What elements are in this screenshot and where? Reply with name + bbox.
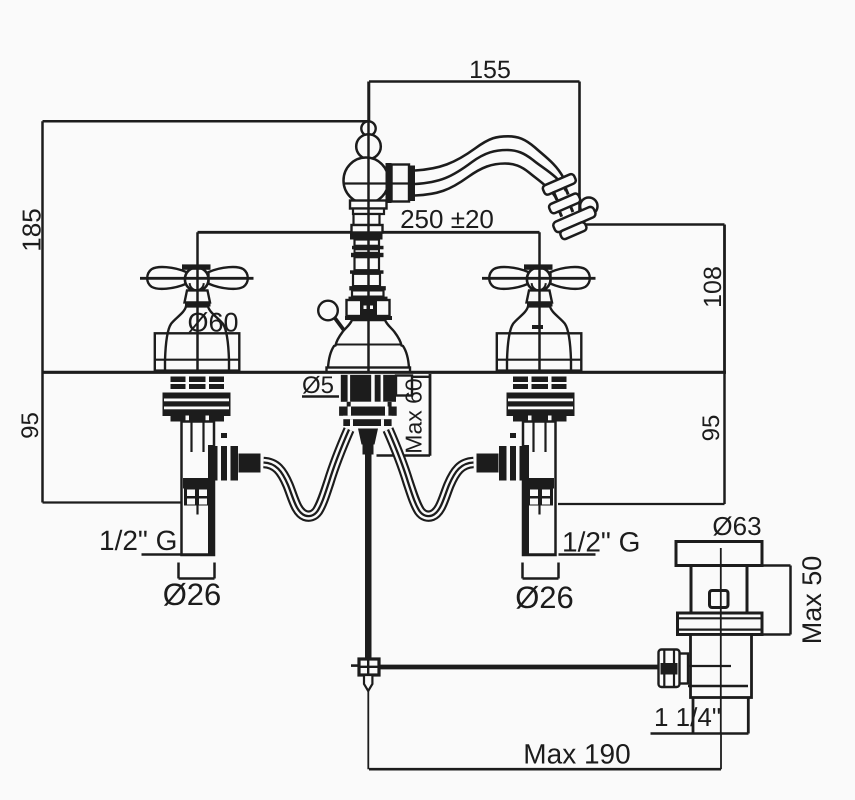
- mount washer plate right: [396, 376, 412, 396]
- drain pivot line: [688, 665, 731, 667]
- mount dark band 1 slit b: [385, 407, 388, 416]
- spout bulb body: [344, 158, 389, 204]
- dim Max60 top tick: [410, 376, 431, 378]
- dim 95 left vertical: [41, 372, 44, 503]
- column narrow 2: [355, 240, 380, 246]
- valve block: [347, 300, 390, 316]
- right below-deck valve (mirrored): [473, 377, 575, 556]
- pop-up lever rod: [335, 318, 347, 334]
- mount white band: [347, 402, 392, 407]
- mount dark band 1 slit a: [348, 407, 351, 416]
- leader 1-1/4 underline: [651, 732, 749, 735]
- drain tail right: [747, 698, 750, 734]
- dim 95 right horizontal: [558, 503, 725, 505]
- drain flange: [676, 542, 762, 566]
- drain nut line 2: [678, 628, 763, 630]
- svg-text:1/2" G: 1/2" G: [99, 525, 177, 556]
- drain nut line 1: [678, 617, 763, 619]
- column ring 2: [352, 225, 383, 233]
- valve block step: [345, 316, 392, 320]
- svg-text:108: 108: [699, 266, 727, 308]
- dim 250 line: [198, 231, 540, 234]
- aerator band 3: [552, 206, 597, 234]
- drain lower body: [691, 635, 752, 698]
- svg-text:185: 185: [17, 208, 47, 251]
- mount dark band 2: [343, 419, 391, 426]
- aerator band 2: [548, 192, 581, 214]
- dim O26 right bracket: [523, 563, 559, 579]
- svg-text:250 ±20: 250 ±20: [400, 204, 494, 234]
- drain overflow square: [710, 591, 729, 608]
- left hose outer: [264, 430, 350, 517]
- column dark band 4: [350, 270, 384, 274]
- svg-text:Ø26: Ø26: [515, 580, 574, 615]
- dim Max60 vertical: [429, 374, 432, 456]
- collar bar right: [409, 166, 415, 202]
- mount stud left dark: [341, 375, 372, 402]
- drain elbow knob dark middle: [661, 663, 678, 675]
- valve block dark center: [360, 300, 377, 316]
- mount dark band 2 slit b: [381, 419, 384, 426]
- mount dark band 1: [339, 407, 397, 416]
- svg-text:1 1/4": 1 1/4": [654, 702, 721, 732]
- drain elbow knob: [659, 650, 680, 688]
- svg-text:Ø5: Ø5: [302, 372, 334, 399]
- left hose center line: [264, 430, 350, 517]
- spout bell step line: [336, 344, 401, 346]
- deck line: [43, 371, 727, 374]
- column narrow 1: [353, 209, 384, 215]
- mount white band mark left: [347, 402, 351, 407]
- aerator bulge: [580, 198, 597, 215]
- mount stud right dark: [375, 375, 396, 402]
- collar barrel: [392, 165, 410, 202]
- drain elbow knob line a: [663, 650, 665, 687]
- column dark band 2: [352, 246, 384, 250]
- mount stud left slit: [348, 375, 351, 402]
- drain centerline: [720, 548, 722, 734]
- right hose center line: [388, 430, 474, 517]
- column flare: [353, 274, 380, 286]
- drain joint line 1: [688, 685, 748, 687]
- dim 185 vertical: [41, 121, 44, 372]
- drain nut: [678, 613, 763, 635]
- right hose outer: [388, 430, 474, 517]
- dim 155 line: [369, 80, 580, 83]
- drain elbow washer: [679, 654, 688, 684]
- svg-text:Ø26: Ø26: [163, 577, 222, 612]
- svg-text:155: 155: [469, 56, 511, 84]
- pop-up cross fitting: [359, 659, 379, 675]
- cross fitting left tick: [351, 664, 359, 667]
- horizontal linkage rod: [379, 665, 661, 670]
- dim 108 vertical: [723, 225, 726, 373]
- dim Max50 vertical: [789, 566, 792, 635]
- pop-up lever circle: [318, 301, 338, 321]
- dim Max60 bottom tick: [377, 454, 431, 457]
- column dark band 5: [349, 286, 386, 290]
- collar bar left: [386, 163, 392, 203]
- dim 155 right extension: [578, 82, 581, 225]
- aerator gap stripes 2: [559, 206, 573, 217]
- svg-text:Max 60: Max 60: [401, 378, 427, 453]
- right handle tiny bell mark: [532, 325, 543, 329]
- dim Max50 bottom tick: [762, 633, 791, 636]
- svg-text:95: 95: [17, 412, 44, 439]
- dim 95 right vertical: [723, 372, 726, 504]
- mount white band 2: [343, 416, 392, 419]
- leader half-G left underline: [142, 553, 183, 556]
- leader half-G right underline: [559, 553, 596, 556]
- svg-text:1/2" G: 1/2" G: [562, 527, 640, 558]
- dim Max190 right extension: [720, 734, 722, 770]
- dim Max50 top tick: [762, 564, 791, 567]
- valve block dot left: [364, 306, 367, 310]
- aerator band 4 tip: [559, 221, 587, 240]
- column narrow 3: [355, 249, 380, 253]
- column spool 1: [354, 214, 380, 225]
- right hose white core: [388, 430, 474, 517]
- dim Max190 line: [369, 768, 721, 771]
- drain elbow knob line b: [673, 650, 675, 687]
- aerator band 1: [542, 173, 577, 196]
- mount white band 3: [345, 426, 388, 429]
- spout tube bottom line: [415, 164, 558, 202]
- dim 155 left extension: [368, 82, 371, 122]
- spout tube middle line: [415, 150, 566, 191]
- left below-deck valve: [163, 377, 265, 556]
- svg-text:Ø60: Ø60: [187, 308, 238, 338]
- left hose white core: [264, 430, 350, 517]
- spout centerline: [367, 82, 370, 372]
- svg-text:95: 95: [698, 415, 725, 442]
- ball circle: [356, 134, 381, 159]
- dim Max190 left extension: [367, 691, 369, 769]
- mount white band mark right: [388, 402, 392, 407]
- bulb horizontal line: [345, 182, 415, 184]
- dim O26 left bracket: [179, 563, 215, 579]
- column narrow 4: [352, 290, 384, 296]
- mount dark band 2 slit a: [350, 419, 353, 426]
- column dark band 1: [350, 233, 383, 239]
- right handle: [482, 232, 596, 372]
- pop-up knuckle: [358, 429, 378, 445]
- dim 108 horizontal: [580, 223, 725, 226]
- left handle: [140, 232, 254, 372]
- mount stud right slit: [381, 375, 384, 402]
- pop-up knuckle lower: [363, 445, 374, 455]
- svg-text:Ø63: Ø63: [712, 511, 761, 541]
- column spool 2: [355, 257, 380, 270]
- drain upper body: [691, 566, 747, 614]
- spout bell: [328, 320, 409, 372]
- svg-text:Max 50: Max 50: [797, 556, 827, 645]
- mount gap center: [371, 375, 374, 402]
- valve block dot right: [370, 306, 373, 310]
- dim 185 top line: [43, 120, 370, 123]
- column ring 1: [350, 201, 387, 209]
- pop-up rod tip: [364, 675, 372, 691]
- cross fitting inner horizontal: [359, 666, 379, 668]
- drain tail left: [692, 698, 695, 734]
- svg-text:Max 190: Max 190: [523, 739, 630, 770]
- dim 95 left horizontal: [43, 501, 181, 503]
- column ring line: [349, 297, 388, 301]
- finial circle: [361, 121, 375, 135]
- DRAIN: [659, 542, 763, 734]
- leader O5 underline: [302, 395, 339, 398]
- spout bell base flange: [327, 368, 411, 373]
- aerator gap stripes 1: [553, 186, 568, 199]
- SPOUT GROUP: [318, 82, 661, 692]
- spout tube top line: [415, 136, 563, 177]
- pop-up rod: [365, 454, 372, 660]
- column dark band 3: [351, 253, 384, 257]
- cross fitting inner vertical: [367, 659, 369, 675]
